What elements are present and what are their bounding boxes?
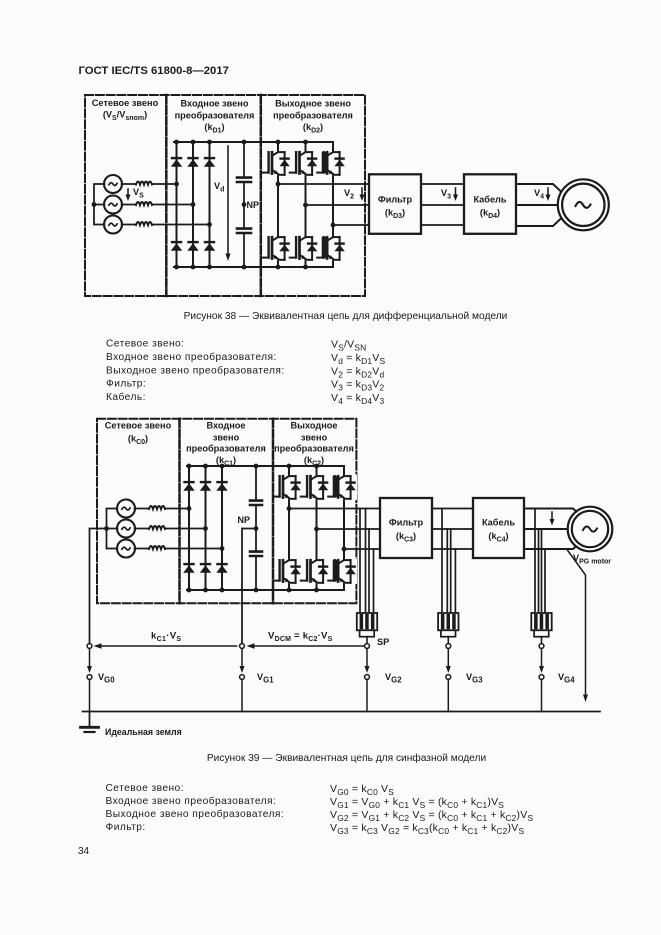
motor ground lead wire [567,550,586,695]
inverter leg 1 [288,466,290,590]
label: Выходное звено преобразователя (kD2) [273,99,353,135]
dc bottom rail [187,589,344,591]
diode D8 [200,481,211,491]
diode D4 [171,241,182,251]
svg-text:VG0: VG0 [98,672,115,685]
common-mode bus arrow VDCM [250,645,364,647]
inverter leg 3 [343,466,345,590]
igbt Q10 [273,558,302,584]
svg-text:Фильтр:: Фильтр: [106,379,146,390]
wires cable to motor [516,184,562,193]
svg-text:звено: звено [213,433,240,443]
diode D7 [183,481,194,491]
inverter leg 2 [316,466,318,590]
svg-text:VG2: VG2 [385,672,402,685]
svg-text:Выходное звено: Выходное звено [275,99,351,109]
ac source G6 [117,540,135,558]
junction rails rectifier [187,464,192,469]
svg-text:34: 34 [78,846,90,857]
svg-text:V3 = kD3V2: V3 = kD3V2 [331,379,384,393]
svg-text:Vd: Vd [214,181,224,194]
svg-text:NP: NP [237,515,250,525]
svg-text:VPG motor: VPG motor [573,553,611,566]
svg-text:VG2 = VG1 + kC2 VS = (kC0 + kC: VG2 = VG1 + kC2 VS = (kC0 + kC1 + kC2)VS [330,809,533,823]
svg-text:Рисунок 39 — Эквивалентная цеп: Рисунок 39 — Эквивалентная цепь для синф… [207,752,486,764]
stray bundle 3 wires [535,509,545,614]
svg-text:Фильтр: Фильтр [378,194,413,204]
rectifier leg 1 [188,466,190,590]
label: Выходное звено преобразователя (kC2) [274,421,354,468]
wire inverter out W [333,224,369,226]
dashed separator mains/input [165,95,168,296]
igbt Q7 [273,474,302,500]
svg-text:Входное звено: Входное звено [181,99,249,109]
rectifier leg 2 [205,466,207,590]
svg-text:(kD2): (kD2) [303,122,323,135]
label: Входное звено преобразователя (kD1) [175,99,255,135]
rectifier leg 1 [176,142,178,267]
inverter leg 3 [332,142,334,267]
diode D10 [183,563,194,573]
motor M1 [558,179,609,230]
svg-text:звено: звено [301,433,328,443]
inductor L4 [149,506,165,509]
svg-text:преобразователя: преобразователя [273,111,353,121]
svg-text:Кабель: Кабель [482,518,515,528]
svg-text:Выходное звено преобразователя: Выходное звено преобразователя: [106,808,285,820]
igbt Q2 [290,150,319,176]
diode D5 [187,241,198,251]
node NP [254,526,259,531]
diode D2 [187,157,198,167]
rectifier leg 2 [192,142,194,267]
diode D1 [171,157,182,167]
NP ground lead wire [242,529,256,644]
kC0 ground lead wire [90,529,107,644]
wires filter to cable [421,184,464,225]
capacitor C2 [237,229,251,233]
svg-text:SP: SP [377,637,389,647]
svg-text:Выходное звено преобразователя: Выходное звено преобразователя: [106,364,285,376]
junction phase taps [174,182,179,187]
svg-text:преобразователя: преобразователя [175,111,255,121]
inductor L6 [149,546,165,549]
stray bundle 1 wires [360,509,374,614]
igbt Q4 [262,235,291,261]
igbt Q5 [290,235,319,261]
stray capacitance block 3 [531,613,551,644]
igbt Q3 [317,150,346,176]
svg-text:Входное звено преобразователя:: Входное звено преобразователя: [106,351,277,363]
svg-text:V2: V2 [344,188,354,201]
ac source G4 [117,500,135,518]
diode D6 [204,241,215,251]
inverter leg 1 [277,142,279,267]
wire phase1 [122,183,177,185]
svg-text:(kC0): (kC0) [128,434,148,447]
dashed separator mains/input [178,419,181,604]
svg-text:Выходное: Выходное [291,421,338,431]
dc-link capacitor leg [243,142,245,267]
dashed separator input/output [272,419,275,604]
dc-link capacitor leg [255,466,257,590]
arrow at motor input [551,512,553,521]
svg-text:(kD1): (kD1) [204,122,224,135]
svg-text:преобразователя: преобразователя [274,444,354,454]
wires filter to cable [432,509,473,550]
capacitor C4 [250,552,262,556]
wire phase3 [135,548,222,550]
node SP terminal [365,644,370,649]
svg-text:Сетевое звено:: Сетевое звено: [106,783,184,794]
wire phase3 [122,224,210,226]
svg-text:Входное: Входное [207,421,246,431]
svg-text:V4: V4 [534,188,544,201]
node VG3 terminal [446,644,451,649]
svg-text:VG0 = kC0 VS: VG0 = kC0 VS [330,783,394,797]
wire inverter out U [278,183,369,185]
label: Сетевое звено (VS/Vsnom) [92,98,159,122]
junction rails rectifier [174,140,179,145]
svg-text:Сетевое звено: Сетевое звено [92,98,159,108]
svg-text:Идеальная земля: Идеальная земля [105,727,182,737]
svg-text:V4 = kD4V3: V4 = kD4V3 [331,392,384,406]
wire inverter out U [289,508,380,510]
svg-text:Рисунок 38 — Эквивалентная цеп: Рисунок 38 — Эквивалентная цепь для дифф… [184,310,508,322]
svg-text:Входное звено преобразователя:: Входное звено преобразователя: [106,795,277,807]
junction rails inverter [276,140,281,145]
rectifier leg 3 [209,142,211,267]
diode D12 [216,563,227,573]
dashed enclosure fig38 [85,95,365,296]
junction phase taps [187,506,192,511]
svg-text:VG4: VG4 [558,672,575,685]
ac source G3 [104,216,122,234]
ac source G1 [104,175,122,193]
cable box kC4 [473,498,524,558]
stray bundle 2 wires [442,509,455,614]
svg-text:Vd = kD1VS: Vd = kD1VS [331,352,385,366]
equation list 2 [106,783,534,836]
svg-text:VG1 = VG0 + kC1 VS = (kC0 + kC: VG1 = VG0 + kC1 VS = (kC0 + kC1)VS [330,796,504,810]
ideal earth rail [83,711,601,713]
Vd arrow [227,146,229,256]
svg-text:VS: VS [133,187,144,200]
igbt Q9 [328,474,357,500]
wire phase1 [135,508,189,510]
inductor L2 [136,202,152,205]
wire inverter out V [306,204,370,206]
filter box kC3 [380,498,432,558]
svg-text:VG1: VG1 [257,672,274,685]
igbt Q11 [301,558,330,584]
wire inverter out W [344,548,380,550]
stray capacitance block 1 [357,613,377,644]
label: Входное звено преобразователя (kC1) [186,421,266,468]
svg-text:VDCM = kC2·VS: VDCM = kC2·VS [268,631,333,644]
label: Сетевое звено (kC0) [105,421,172,447]
dc top rail [174,141,333,143]
junction source bus [104,526,109,531]
node NP [242,202,247,207]
inductor L3 [136,222,152,225]
junction rails inverter [287,464,292,469]
wire inverter out V [317,528,381,530]
dc top rail [187,465,344,467]
rectifier leg 3 [221,466,223,590]
svg-text:Сетевое звено:: Сетевое звено: [106,339,184,350]
igbt Q6 [317,235,346,261]
node VG0 terminal [87,644,92,649]
igbt Q8 [301,474,330,500]
node VG1 terminal [240,644,245,649]
junction source bus [92,202,97,207]
inductor L5 [149,526,165,529]
source bus wire [107,509,118,549]
svg-text:VG3 = kC3 VG2 = kC3(kC0 + kC1: VG3 = kC3 VG2 = kC3(kC0 + kC1 + kC2)VS [330,822,524,836]
svg-text:(VS/Vsnom): (VS/Vsnom) [103,110,147,123]
svg-text:V2 = kD2Vd: V2 = kD2Vd [331,365,384,379]
cable box kD4 [464,174,516,234]
dashed separator input/output [260,95,263,296]
ground symbol [89,712,91,727]
svg-text:NP: NP [247,200,260,210]
svg-text:Фильтр:: Фильтр: [106,822,146,833]
svg-text:ГОСТ IEC/TS 61800-8—2017: ГОСТ IEC/TS 61800-8—2017 [79,65,229,77]
dc bottom rail [174,266,333,268]
svg-text:преобразователя: преобразователя [186,444,266,454]
VS arrow [127,189,129,197]
capacitor C3 [250,501,262,505]
capacitor C1 [237,178,251,182]
svg-text:kC1·VS: kC1·VS [151,631,181,644]
svg-text:Кабель:: Кабель: [106,391,146,403]
wire phase2 [135,528,206,530]
ac source G5 [117,520,135,538]
diode D3 [204,157,215,167]
wires cable to motor [524,509,581,516]
common-mode bus arrow kC1*VS [97,645,237,647]
diode D9 [216,481,227,491]
ac source G2 [104,196,122,214]
inductor L1 [136,182,152,185]
svg-text:Фильтр: Фильтр [389,518,424,528]
wire phase2 [122,204,193,206]
dashed enclosure fig39 [97,419,356,604]
svg-text:Сетевое звено: Сетевое звено [105,421,172,431]
igbt Q1 [262,150,291,176]
svg-text:Кабель: Кабель [473,194,506,204]
inverter leg 2 [305,142,307,267]
svg-text:VS/VSN: VS/VSN [331,339,366,353]
svg-text:VG3: VG3 [466,672,483,685]
diode D11 [200,563,211,573]
equation list 1 [106,339,385,407]
igbt Q12 [328,558,357,584]
source bus wire [94,184,104,225]
stray capacitance block 2 [438,613,458,644]
motor M2 [568,507,613,552]
svg-text:V3: V3 [441,188,451,201]
node VG4 terminal [539,644,544,649]
filter box kD3 [369,174,421,234]
